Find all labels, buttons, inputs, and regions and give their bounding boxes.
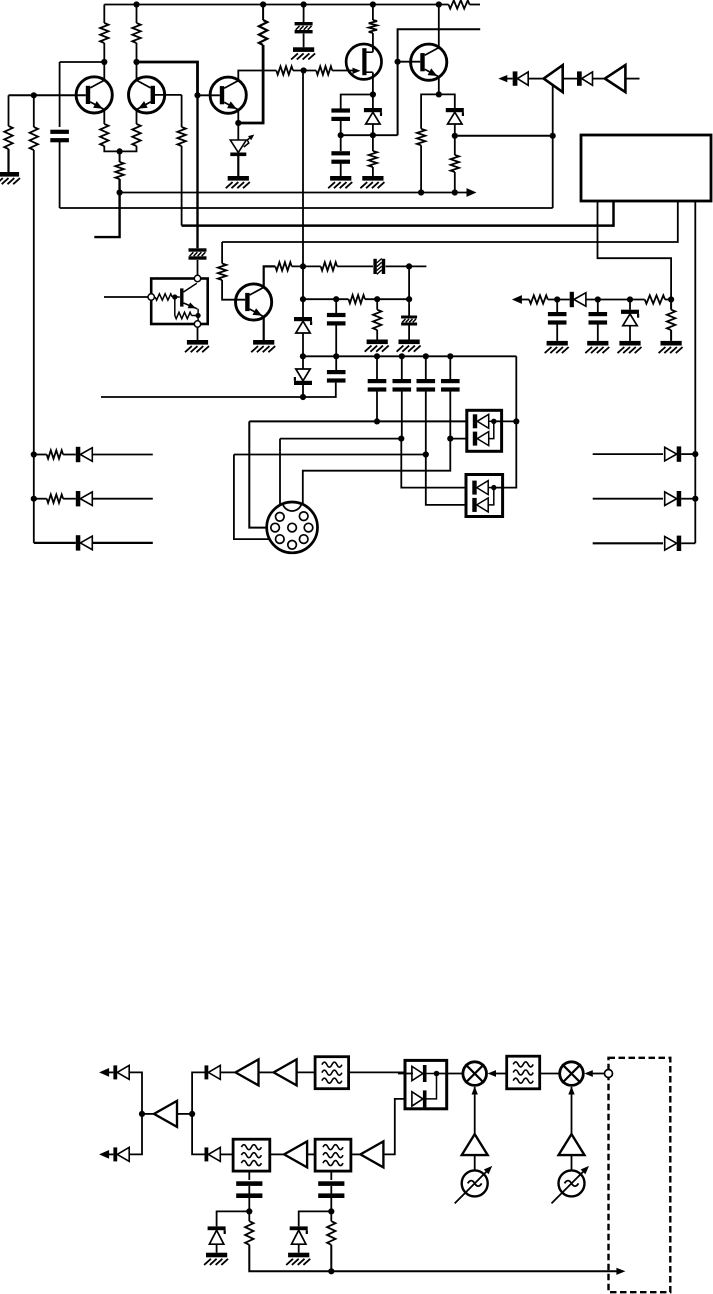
wire R15 to bus Y192 [420, 145, 422, 192]
capacitor C4 [335, 299, 337, 314]
resistor R5 [177, 127, 185, 146]
wire Q2 base to R5 [155, 94, 182, 96]
wire node to ZD6 [217, 1211, 250, 1226]
ground [367, 340, 388, 345]
wire row Y356 [303, 355, 516, 357]
wire Q5 base [398, 61, 421, 63]
ground [362, 176, 383, 181]
wire LED to ground [237, 156, 239, 176]
ground [661, 341, 682, 346]
wire CT3 right [386, 265, 427, 267]
amplifier A7 [360, 1141, 383, 1167]
diode D11 [113, 1065, 117, 1079]
trimmer capacitor CT2 [189, 248, 207, 251]
wire node to ZD7 [299, 1211, 332, 1226]
wire U4 input left [398, 1073, 413, 1075]
wire column to trimmer [196, 95, 198, 248]
resistor R21 [321, 262, 337, 270]
resistor R23 [376, 299, 378, 310]
JFET Q4 [346, 44, 381, 79]
wire R26 to node [548, 299, 570, 301]
capacitor C6 [376, 356, 378, 379]
wire bus Y208 [60, 207, 553, 209]
diode U2b [473, 432, 477, 446]
wire control rail to unit [331, 1270, 619, 1272]
arrow signal out left [504, 78, 513, 80]
wire Q2 collector out (thick) [137, 62, 198, 95]
wire emitter node right to ZD2 [439, 94, 455, 108]
wire U4 to mixer MX1 [437, 1073, 463, 1075]
resistor R3 [4, 126, 12, 149]
diode D12 [113, 1147, 117, 1161]
diode U4b [423, 1090, 427, 1107]
resistor R8 [132, 124, 140, 146]
wire A3 to splitter node [177, 1113, 192, 1115]
capacitor C9 [449, 356, 451, 379]
wire R16 to bus Y192 [454, 172, 456, 193]
wire source node to C2 [341, 95, 373, 111]
wire D7 to node [586, 299, 645, 301]
wire R12 feed (thick) [262, 5, 264, 21]
wire ZD2 to node [454, 124, 456, 136]
wire Q1 base row [9, 94, 86, 96]
wire R14 to ground [372, 167, 374, 176]
ground [547, 341, 568, 346]
ground [0, 172, 19, 177]
amplifier A6 [284, 1141, 307, 1167]
wire amp chain tap [552, 86, 554, 136]
resistor R24 [47, 450, 63, 458]
ground [187, 340, 208, 345]
wire to Q5 base node [398, 29, 481, 135]
wire C1 to bus [59, 140, 61, 209]
transistor Q7 [236, 284, 272, 320]
wire CT4 to ground [408, 326, 410, 340]
zener diode ZD2 [446, 108, 464, 112]
ground [619, 341, 640, 346]
pin circle left [148, 294, 154, 300]
mixer MX2 [560, 1062, 584, 1086]
wire A7 to U4 lower [383, 1099, 405, 1155]
wire C12 node [248, 1198, 250, 1221]
capacitor C11 [597, 300, 599, 313]
wire emitter node left to R15 [421, 94, 439, 128]
wire IC pin D column [694, 202, 696, 454]
wire long column to diode rows [33, 95, 35, 127]
wire Q1 emitter resistor [103, 109, 105, 124]
amplifier A4 [236, 1059, 259, 1085]
diode U2a [473, 414, 477, 428]
zener diode ZD4 (inverted) [296, 369, 310, 381]
resistor R11 [316, 66, 332, 74]
resistor R30 [327, 1221, 335, 1245]
filter FL4 [507, 1056, 540, 1089]
amplifier A1 [544, 65, 563, 92]
feedback box U1 [151, 279, 208, 325]
diode D6 [76, 535, 81, 550]
wire Q7 emitter to ground [263, 316, 265, 340]
resistor R9 [115, 162, 123, 179]
transistor Q6 in box [180, 288, 183, 306]
resistor R29 [245, 1221, 253, 1245]
wire ZD7 to ground [298, 1244, 300, 1253]
transistor Q1 [76, 77, 112, 113]
filter FL2 [233, 1139, 270, 1171]
resistor R14 [372, 135, 374, 151]
wire right diode row 3 [593, 542, 663, 544]
wire C7 down [401, 391, 403, 439]
wire A4-A5 [259, 1071, 274, 1073]
trimmer capacitor CT3 [373, 259, 376, 274]
wire U3 to row Y356 column [494, 421, 517, 487]
oscillator OSC2 [559, 1170, 585, 1196]
wire MX1 LO input [474, 1087, 476, 1134]
transistor Q2 [129, 77, 165, 113]
diode D13 [205, 1065, 209, 1079]
diode D9 [677, 491, 682, 506]
transistor Q3 [210, 77, 246, 113]
wire R18 to bottom pin column [192, 315, 199, 317]
wire C3 to ground [340, 161, 342, 176]
resistor R17 in box [155, 294, 172, 300]
wire FL3-A7 [351, 1153, 361, 1155]
arrow RX out top-left [99, 1068, 109, 1077]
wire D4 out [92, 454, 153, 456]
wire FL2-A6 [270, 1153, 284, 1155]
wire right diode row 1 [593, 453, 663, 455]
wire IC pin A route [598, 202, 672, 300]
diode D10 [677, 536, 682, 551]
wire FL1 to U4 [349, 1071, 405, 1073]
arrow RX out bottom-left [99, 1150, 109, 1159]
wire bus Y397 [101, 383, 336, 397]
wire DIN pin ML column [249, 421, 270, 527]
wire R21 to trimmer [337, 265, 373, 267]
filter FL1 [315, 1057, 349, 1089]
trimmer capacitor CT4 [401, 316, 417, 319]
wire C4 down [335, 325, 337, 357]
wire node A to Q1 collector [60, 61, 105, 63]
wire box bottom pin to ground [197, 327, 199, 340]
ground [288, 1253, 309, 1258]
wire top supply bus [104, 4, 448, 6]
wire FET drain column [372, 5, 374, 21]
arrow bus Y192 out [455, 192, 471, 194]
wire D3-amp2 [593, 78, 605, 80]
wire row Y299 left segment [303, 298, 349, 300]
wire C9 down [449, 391, 451, 439]
pin circle bottom [194, 321, 200, 327]
ground [399, 340, 420, 345]
wire R22 to trimmer column [365, 298, 409, 300]
wire row Y439 DIN to C7 [280, 438, 401, 440]
wire R11 to FET gate [332, 70, 355, 72]
wire R30 to rail [330, 1245, 332, 1272]
wire A9-OSC2 [571, 1155, 573, 1170]
wire C8 down [425, 391, 427, 454]
wire C13 node [330, 1198, 332, 1221]
wire C2 to node row [340, 119, 342, 135]
trimmer capacitor CT1 [303, 5, 305, 23]
diode D8 [677, 446, 682, 461]
resistor R1 [100, 23, 108, 43]
wire Q3 emitter / LED [237, 110, 239, 140]
amplifier A5 [274, 1059, 297, 1085]
capacitor C5 [327, 370, 346, 374]
wire row Y454 DIN BL to C8 [234, 454, 426, 456]
resistor R4 [30, 127, 38, 150]
resistor R7 [100, 124, 108, 146]
wire column X409 [408, 266, 410, 315]
wire column X303 down [302, 71, 304, 267]
wire common emitter column [119, 151, 121, 162]
wire A8-OSC1 [474, 1155, 476, 1170]
wire diode row 1 left [34, 454, 47, 456]
wire D6 out [92, 542, 153, 544]
resistor R28 [670, 300, 672, 310]
wire R27 to node [665, 299, 671, 301]
resistor R26 [529, 295, 548, 303]
wire C6 to row Y421 [376, 391, 378, 421]
wire node row Y136 right [455, 135, 553, 137]
DIN connector J1 [267, 502, 318, 553]
wire U2 internal [489, 420, 494, 422]
wire DIN pin BL column [234, 455, 276, 540]
wire C8 to opto U3 lower [426, 455, 466, 505]
pin circle top [194, 275, 200, 281]
resistor R25 [47, 495, 63, 503]
wire R29 to rail [249, 1245, 331, 1272]
diode D4 [76, 447, 81, 462]
wire input to box [104, 296, 148, 298]
wire Q3 collector to gate row [238, 71, 276, 81]
ground [228, 176, 249, 181]
wire CT1 to ground [303, 34, 305, 48]
wire node row Y135 [341, 134, 398, 136]
dashed unit box [609, 1058, 671, 1292]
oscillator OSC1 [462, 1170, 488, 1196]
wire bus Y225 to IC pin [182, 202, 614, 226]
wire D12 to split [129, 1114, 142, 1155]
wire Q7 collector to row Y266 [264, 266, 276, 287]
wire row Y266 [292, 265, 321, 267]
LED D1 [230, 140, 246, 153]
amplifier A2 [605, 65, 626, 92]
wire R18 from base node [174, 297, 176, 316]
resistor R2 [132, 23, 140, 43]
ground [253, 340, 274, 345]
IC1 block [581, 135, 711, 201]
wire diode row 3 left [34, 542, 76, 544]
wire R19 to Q7 base [222, 280, 245, 300]
wire A5-FL1 [297, 1071, 316, 1073]
wire C9 node down to DIN TR [303, 439, 451, 513]
wire FL4 to MX1 with arrow [492, 1073, 507, 1075]
wire bus Y242 to IC pin [222, 202, 678, 243]
resistor R15 [417, 129, 425, 146]
wire D13-A4 [220, 1071, 235, 1073]
wire Q2 collector column [136, 5, 138, 24]
amplifier A3 [142, 1113, 154, 1115]
resistor R19 [218, 264, 226, 281]
capacitor C7 [401, 356, 403, 379]
capacitor C1 [50, 130, 69, 134]
wire FL4 to MX2 [540, 1073, 560, 1075]
wire node to Q3 base [198, 94, 220, 96]
wire Q5 collector [438, 5, 440, 48]
wire splitter to top row [192, 1072, 204, 1114]
resistor R20 [275, 262, 291, 270]
diode D14 [205, 1147, 209, 1161]
zener diode ZD3 [302, 299, 304, 317]
ground [206, 1253, 227, 1258]
wire U4 internal [427, 1073, 437, 1075]
wire bus Y192 [120, 192, 455, 194]
mixer MX1 [463, 1062, 487, 1086]
diode D5 [76, 491, 81, 506]
resistor R12 [259, 20, 267, 45]
diode U4a [423, 1065, 427, 1082]
capacitor C3 [340, 135, 342, 151]
resistor R16 [454, 136, 456, 155]
wire C7 to opto U3 upper [401, 439, 466, 488]
amplifier A9 [559, 1134, 585, 1155]
resistor R6 on top bus [449, 0, 470, 8]
diode U3b [472, 498, 476, 512]
wire MX2 LO input [571, 1087, 573, 1134]
wire row Y356 to opto row [515, 356, 517, 421]
wire D2-amp [528, 78, 544, 80]
amplifier A8 [462, 1134, 488, 1155]
optocoupler U3 [466, 475, 503, 517]
wire U2b to C9 node [450, 438, 467, 440]
wire R23 to ground [376, 330, 378, 340]
filter FL3 [315, 1139, 351, 1171]
arrow row Y299 out left [518, 299, 529, 301]
ground [330, 176, 351, 181]
wire R5 to bus [181, 146, 183, 226]
wire U2 out right [494, 420, 517, 422]
ground [587, 341, 608, 346]
wire D14-FL2 [220, 1153, 233, 1155]
zener diode ZD7 [290, 1226, 308, 1230]
wire D5 out [92, 498, 153, 500]
wire pin D column lower [694, 454, 696, 543]
wire ZD6 to ground [216, 1244, 218, 1253]
wire A6-FL3 [307, 1153, 315, 1155]
diode D3 [577, 71, 582, 85]
diode D7 [570, 292, 574, 307]
zener diode ZD6 [208, 1226, 226, 1230]
zener diode ZD1 [372, 95, 374, 109]
wire Q2 emitter resistor [136, 109, 138, 124]
wire ZD1 to node row [372, 124, 374, 135]
capacitor C2 [331, 108, 350, 112]
wire U3 internal [488, 487, 494, 489]
capacitor C8 [425, 356, 427, 379]
wire FET source [372, 51, 374, 53]
resistor R13 [369, 20, 377, 33]
wire CT2 to box [197, 260, 199, 276]
wire amp-D3 [563, 78, 577, 80]
zener diode ZD5 [629, 300, 631, 310]
transistor Q5 [411, 44, 447, 80]
wire R3 to ground [7, 149, 9, 172]
wire R10-R11 [293, 70, 316, 72]
ground [293, 47, 314, 52]
resistor R10 [276, 66, 293, 74]
diode D2 [513, 71, 518, 85]
wire DIN pin TL column [279, 439, 281, 513]
wire node Y136 down to bus Y208 [552, 136, 554, 208]
wire amp2 in [625, 78, 639, 80]
wire Q5 emitter node [438, 77, 440, 95]
resistor R27 [645, 295, 665, 303]
wire row Y421 DIN to opto U2 [249, 420, 466, 422]
wire splitter to bottom row [192, 1114, 204, 1155]
wire right diode row 2 [593, 498, 663, 500]
wire D11 to split [129, 1072, 142, 1114]
optocoupler U2 [467, 410, 502, 451]
capacitor C12 (feedthrough) [248, 1171, 250, 1180]
terminal circle [605, 1070, 613, 1078]
wire R19 column from bus Y242 [221, 242, 223, 264]
capacitor C13 (feedthrough) [330, 1171, 332, 1180]
resistor R22 [349, 295, 365, 303]
capacitor C10 [556, 300, 558, 313]
resistor R18 in box [175, 312, 192, 318]
diode U3a [472, 481, 476, 495]
diode pack U4 [405, 1060, 447, 1108]
wire Q1 collector column [103, 5, 105, 24]
wire term to MX2 with arrow [589, 1073, 605, 1075]
wire diode row 2 left [34, 498, 47, 500]
